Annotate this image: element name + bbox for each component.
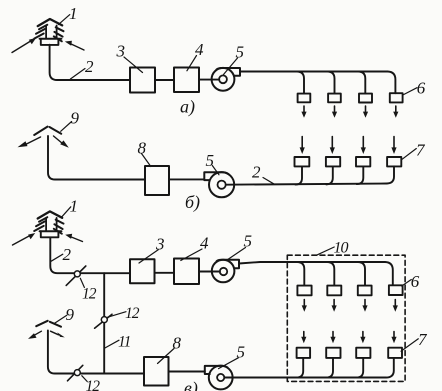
damper valve 12 on duct 11 [95,314,112,328]
stem 4 (row b, line end curves up) [387,166,394,183]
branch 2 (row a) [328,72,335,94]
outlet grille 6-3 (row a) [359,94,372,103]
label 4 (row v) with leader [181,234,209,261]
chamber box 8 (row b) [145,166,169,195]
label 5 (row b) with leader [206,151,220,175]
svg-text:2: 2 [252,163,261,182]
svg-text:9: 9 [71,109,80,128]
outflow arrow left (row v) [28,331,41,339]
supply arrow 3 (row v) [362,300,367,312]
air-out arrow 1 (row a) [301,106,306,118]
recirculation duct 11 vertical wire [103,273,105,373]
exhaust main duct (row b) [226,184,387,185]
svg-text:5: 5 [244,232,253,251]
svg-text:11: 11 [118,334,131,351]
exhaust grille 7-1 (row v) [297,348,311,358]
exhaust grille 7-4 (row v) [388,348,402,358]
exhaust deflector 9 (row v) [36,321,61,327]
fan 5 (row v top) [212,260,239,283]
exhaust arrow 1 (row v) [301,332,306,344]
damper valve 12 on duct 2 (row v) [66,266,86,285]
svg-text:5: 5 [206,151,215,170]
outlet grille 6-4 (row a) [390,93,403,102]
supply arrow 1 (row v) [302,300,307,312]
duct wire 2 (row v): stem and horizontal [50,238,130,274]
outflow arrow right (row v) [51,331,65,337]
exhaust arrow 2 (row v) [330,332,335,344]
svg-text:6: 6 [417,79,426,98]
wire box3-box4 (row v) [155,272,175,274]
fan 5 (row v bottom) [205,366,233,390]
svg-text:1: 1 [69,4,78,23]
air-out arrow 4 (row a) [393,106,398,118]
exhaust grille 7-3 (row v) [356,348,370,358]
supply main duct (row a) [240,71,388,73]
air-out arrow 3 (row a) [363,106,368,118]
exhaust stem 1 (row v) [297,358,304,378]
svg-text:6: 6 [411,272,420,291]
duct wire 2 (row a): stem and horizontal to box 3 [50,45,130,80]
outflow arrow right (row b) [54,136,69,148]
chamber box 8 (row v) [144,357,169,386]
filter box 3 (row a) [130,68,155,93]
wire box4-fan (row v) [199,271,220,273]
supply grille 6-3 (row v) [358,286,372,296]
svg-text:а): а) [180,97,195,118]
label 12 (valve on duct 11) with leader [107,305,139,322]
label 12 (valve on duct 2) with leader [80,278,96,302]
label 5 (row a) with leader [224,43,245,75]
air-out arrow 2 (row a) [332,106,337,118]
outlet grille 6-2 (row a) [328,94,341,103]
svg-text:1: 1 [70,197,79,216]
inflow arrow right (row a) [65,41,84,50]
svg-text:8: 8 [138,139,147,158]
supply arrow 4 (row v) [393,300,398,312]
exhaust arrow 4 (row v) [391,332,396,344]
fan 5 (row a) [212,68,240,91]
stem 3 (row b) [357,167,364,185]
svg-text:2: 2 [85,57,94,76]
supply grille 6-2 (row v) [327,286,341,296]
branch 4 (row a, line end curves down) [388,72,396,94]
inflow arrow left (row v) [13,233,36,245]
svg-text:8: 8 [173,334,182,353]
outlet grille 6-1 (row a) [298,94,311,103]
label 2 (row v) with leader [51,245,71,264]
exhaust deflector 9 (row b) [34,127,61,135]
label 9 (row b) with leader [61,109,80,132]
air-in arrow 2 (row b) [330,137,335,155]
inflow arrow right (row v) [65,234,82,242]
svg-text:3: 3 [116,42,126,61]
branch 3 (row a) [358,72,365,94]
damper valve 12 on exhaust duct (row v) [68,365,83,381]
label 5 (row v bottom) with leader [219,343,246,369]
branch 1 (row a) [297,72,304,94]
supply main duct (row v) [239,262,385,264]
label 3 (row a) with leader [116,42,143,73]
air intake 1 (row a) [34,19,63,45]
exhaust stem 2 (row v) [327,358,334,378]
svg-text:2: 2 [63,245,72,264]
label 7 (row v) with leader [401,330,428,351]
supply grille 6-1 (row v) [297,286,311,296]
svg-text:12: 12 [86,378,101,391]
label 8 (row v) with leader [158,334,182,364]
exhaust stem 4 (row v, line end curves up) [386,358,394,378]
label 12 (valve on exhaust duct) with leader [82,376,100,391]
wire box4-fan [199,79,219,81]
exhaust main duct (row v) [224,377,386,379]
filter box 3 (row v) [130,259,155,283]
air-in arrow 3 (row b) [361,137,366,155]
label 6 (row a) with leader [403,79,426,98]
supply arrow 2 (row v) [332,300,337,312]
label 1 (row v) with leader [62,197,79,218]
svg-text:4: 4 [195,40,204,59]
svg-text:5: 5 [237,343,246,362]
air-in arrow 4 (row b) [391,137,396,155]
recirculation room 10 dashed enclosure [287,255,405,381]
exhaust grille 7-2 (row v) [326,348,340,358]
wire box8-fan (row v) [169,371,205,373]
stem 1 (row b) [296,167,303,185]
svg-text:10: 10 [334,240,349,257]
wire box8-fan (row b) [169,178,204,180]
intake grille 7-1 (row b) [295,157,310,166]
outflow arrow left (row b) [18,137,41,147]
label 2 (row a) with leader [70,57,94,79]
label 3 (row v) with leader [139,235,165,264]
air-in arrow 1 (row b) [300,137,305,155]
heater box 4 (row a) [174,68,199,93]
branch 4 (row v, line end curves down) [385,262,393,285]
label 1 (row a) with leader [58,4,77,25]
wire box3-box4 [155,79,174,81]
intake grille 7-3 (row b) [356,157,370,166]
label 6 (row v) with leader [402,272,420,291]
supply grille 6-4 (row v) [389,285,403,295]
svg-text:4: 4 [200,234,209,253]
inflow arrow left (row a) [12,38,36,53]
label 10 with leader [317,240,349,257]
svg-text:б): б) [185,192,200,213]
exhaust stem 3 (row v) [357,358,364,378]
label 9 (row v) with leader [54,305,74,324]
label 8 (row b) with leader [138,139,151,167]
branch 3 (row v) [358,262,365,285]
label 7 (row b) with leader [401,141,426,160]
branch 1 (row v) [297,262,304,285]
branch 2 (row v) [327,262,334,285]
svg-text:12: 12 [125,305,140,322]
svg-text:в): в) [184,378,198,391]
heater box 4 (row v) [174,259,199,285]
svg-text:12: 12 [82,286,97,303]
air intake 1 (row v) [34,211,63,237]
stem 2 (row b) [326,167,333,185]
svg-text:5: 5 [236,43,245,62]
fan 5 (row b) [204,172,234,197]
label 2 (row b) with leader [252,163,275,185]
svg-text:9: 9 [66,305,75,324]
label 5 (row v top) with leader [226,232,252,261]
label 4 (row a) with leader [187,40,204,71]
intake grille 7-2 (row b) [326,157,340,166]
exhaust arrow 3 (row v) [360,332,365,344]
svg-text:3: 3 [155,235,165,254]
exhaust duct wire (row v): stem to valve [48,331,144,374]
exhaust duct wire (row b): stem to box 8 [48,136,145,180]
label 11 with leader [105,334,131,351]
intake grille 7-4 (row b) [387,157,401,166]
